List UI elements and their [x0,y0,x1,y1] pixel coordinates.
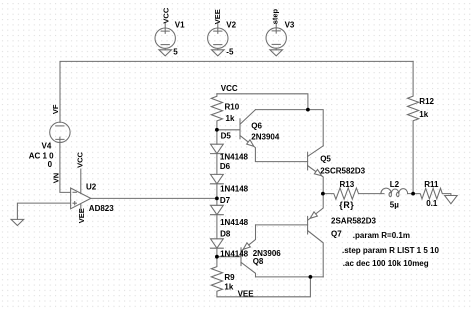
svg-text:1k: 1k [224,282,233,291]
svg-text:R12: R12 [419,97,434,106]
svg-text:{R}: {R} [339,200,354,210]
svg-text:VCC: VCC [221,84,238,93]
svg-text:R13: R13 [340,180,355,189]
svg-text:1N4148: 1N4148 [220,250,249,259]
svg-text:1k: 1k [226,114,235,123]
svg-text:VF: VF [51,104,60,114]
svg-text:Q6: Q6 [251,122,262,131]
svg-text:Q7: Q7 [331,230,342,239]
svg-text:0.1: 0.1 [426,199,438,208]
svg-text:U2: U2 [86,183,97,192]
svg-text:V2: V2 [226,20,236,29]
svg-text:D5: D5 [221,132,232,141]
svg-text:-5: -5 [226,48,234,57]
svg-text:VCC: VCC [162,7,171,23]
svg-text:.param R=0.1m: .param R=0.1m [353,231,410,240]
svg-text:VEE: VEE [238,289,255,298]
svg-text:Q8: Q8 [253,257,264,266]
svg-text:2N3904: 2N3904 [251,132,280,141]
svg-text:2SCR582D3: 2SCR582D3 [320,166,365,175]
svg-text:1N4148: 1N4148 [220,185,249,194]
svg-text:R11: R11 [424,180,439,189]
svg-text:V4: V4 [42,142,52,151]
svg-text:Q5: Q5 [320,155,331,164]
svg-text:0: 0 [48,160,53,169]
svg-text:V1: V1 [175,20,185,29]
svg-text:.ac dec 100 10k 10meg: .ac dec 100 10k 10meg [343,259,429,268]
svg-text:5: 5 [173,48,178,57]
svg-text:1N4148: 1N4148 [220,153,249,162]
svg-text:VEE: VEE [213,9,222,24]
svg-text:VCC: VCC [76,151,85,167]
svg-text:AD823: AD823 [89,204,114,213]
svg-text:step: step [271,8,280,24]
svg-text:D7: D7 [220,196,231,205]
svg-text:L2: L2 [390,180,400,189]
svg-text:1k: 1k [419,110,428,119]
svg-text:VN: VN [51,173,60,183]
svg-text:V3: V3 [285,20,295,29]
svg-text:D6: D6 [220,162,231,171]
svg-text:5µ: 5µ [390,200,399,209]
svg-text:R9: R9 [224,273,235,282]
svg-text:.step param R LIST 1 5 10: .step param R LIST 1 5 10 [342,246,439,255]
svg-text:2SAR582D3: 2SAR582D3 [331,216,376,225]
svg-text:R10: R10 [225,103,240,112]
svg-text:D8: D8 [220,230,231,239]
svg-text:VEE: VEE [77,208,86,223]
svg-text:1N4148: 1N4148 [220,218,249,227]
